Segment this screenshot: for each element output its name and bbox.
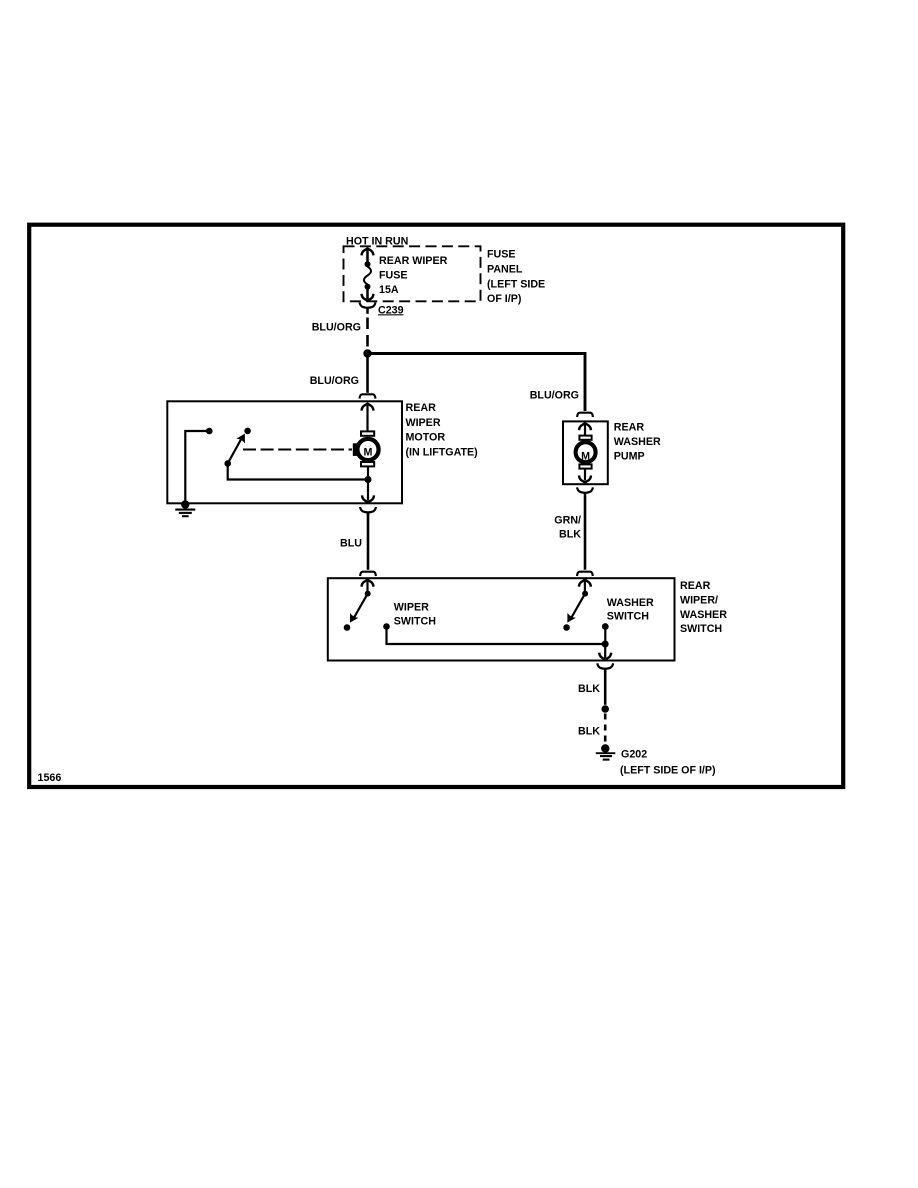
label 1566 bbox=[38, 772, 62, 784]
washer switch output contact bbox=[602, 623, 609, 642]
wire to rear washer pump branch bbox=[368, 354, 586, 412]
svg-text:MOTOR: MOTOR bbox=[406, 432, 446, 444]
connector at washer switch bbox=[577, 572, 593, 576]
svg-text:BLK: BLK bbox=[578, 725, 600, 737]
label REAR WIPER MOTOR (IN LIFTGATE) bbox=[406, 402, 479, 458]
washer switch bbox=[563, 580, 591, 631]
connector C239 bbox=[360, 302, 376, 313]
connector at wiper switch bbox=[360, 572, 376, 576]
connector at rear washer pump bbox=[577, 413, 593, 417]
wire: switch output arrow bbox=[599, 644, 611, 660]
label REAR WASHER PUMP bbox=[614, 422, 661, 463]
svg-text:(LEFT SIDE OF I/P): (LEFT SIDE OF I/P) bbox=[620, 765, 716, 777]
svg-text:(IN LIFTGATE): (IN LIFTGATE) bbox=[406, 446, 479, 458]
svg-text:SWITCH: SWITCH bbox=[394, 616, 436, 628]
park switch (in motor) bbox=[224, 428, 251, 467]
ground (motor case) bbox=[175, 500, 195, 516]
label G202 (LEFT SIDE OF I/P) bbox=[620, 749, 716, 777]
ground G202 bbox=[596, 744, 616, 759]
washer pump motor M bbox=[576, 436, 596, 469]
svg-text:WIPER/: WIPER/ bbox=[680, 594, 718, 606]
svg-text:BLU/ORG: BLU/ORG bbox=[310, 375, 359, 387]
svg-text:15A: 15A bbox=[379, 284, 399, 296]
svg-text:1566: 1566 bbox=[38, 772, 62, 784]
fuse REAR WIPER FUSE 15A bbox=[362, 248, 374, 300]
fuse panel box (dashed) bbox=[344, 246, 481, 301]
svg-text:PANEL: PANEL bbox=[487, 264, 523, 276]
wire BLK bbox=[604, 671, 607, 705]
label BLU/ORG bbox=[312, 321, 361, 333]
svg-text:C239: C239 bbox=[378, 304, 404, 316]
svg-text:OF I/P): OF I/P) bbox=[487, 293, 522, 305]
label GRN/ BLK bbox=[554, 514, 581, 540]
svg-text:SWITCH: SWITCH bbox=[680, 623, 722, 635]
label BLK bbox=[578, 683, 600, 695]
wire BLU bbox=[367, 513, 370, 570]
rear wiper motor box bbox=[167, 401, 402, 503]
wire BLU/ORG (dashed) bbox=[366, 318, 369, 350]
svg-text:FUSE: FUSE bbox=[379, 270, 408, 282]
wire BLU/ORG to motor bbox=[366, 356, 369, 393]
wiper switch bbox=[344, 580, 374, 631]
svg-text:BLK: BLK bbox=[559, 528, 581, 540]
svg-text:REAR: REAR bbox=[614, 422, 645, 434]
label HOT IN RUN bbox=[346, 235, 408, 247]
connector at rear wiper motor bbox=[360, 394, 376, 398]
svg-text:WIPER: WIPER bbox=[406, 417, 441, 429]
label BLU/ORG (washer branch) bbox=[530, 389, 579, 401]
wire GRN/BLK bbox=[584, 497, 587, 570]
connector below switch box bbox=[597, 663, 613, 672]
label WIPER SWITCH bbox=[394, 601, 436, 627]
svg-text:BLU/ORG: BLU/ORG bbox=[530, 389, 579, 401]
connector below pump bbox=[577, 487, 593, 497]
label REAR WIPER/ WASHER SWITCH bbox=[680, 580, 727, 635]
node splice S1 bbox=[363, 349, 371, 357]
wire: park contact return bbox=[228, 465, 368, 480]
svg-text:REAR WIPER: REAR WIPER bbox=[379, 255, 448, 267]
svg-text:BLU: BLU bbox=[340, 537, 362, 549]
svg-text:G202: G202 bbox=[621, 749, 647, 761]
svg-text:REAR: REAR bbox=[680, 580, 711, 592]
wire: pump feed arrow bbox=[579, 423, 591, 436]
dashed link to brush bbox=[243, 449, 352, 451]
label C239 bbox=[378, 304, 404, 316]
svg-text:FUSE: FUSE bbox=[487, 249, 516, 261]
wire: motor return with junction bbox=[362, 467, 374, 503]
label BLK bbox=[578, 725, 600, 737]
wire: motor ground stub bbox=[185, 428, 212, 503]
svg-text:BLK: BLK bbox=[578, 683, 600, 695]
svg-text:WASHER: WASHER bbox=[680, 609, 727, 621]
label FUSE PANEL (LEFT SIDE OF I/P) bbox=[487, 249, 545, 306]
node: switch output junction bbox=[602, 641, 609, 648]
label BLU bbox=[340, 537, 362, 549]
label BLU/ORG bbox=[310, 375, 359, 387]
wire: pump return arrow bbox=[579, 469, 591, 483]
connector below motor bbox=[360, 507, 376, 516]
svg-text:WASHER: WASHER bbox=[607, 597, 654, 609]
svg-text:GRN/: GRN/ bbox=[554, 514, 581, 526]
svg-text:WASHER: WASHER bbox=[614, 436, 661, 448]
svg-text:M: M bbox=[581, 451, 590, 463]
svg-text:WIPER: WIPER bbox=[394, 601, 429, 613]
wire BLK (dashed) bbox=[604, 714, 607, 744]
svg-text:M: M bbox=[364, 447, 373, 459]
motor M (rear wiper) bbox=[353, 431, 379, 466]
label WASHER SWITCH bbox=[607, 597, 654, 623]
svg-text:PUMP: PUMP bbox=[614, 451, 645, 463]
svg-text:(LEFT SIDE: (LEFT SIDE bbox=[487, 278, 545, 290]
wiper switch output contact and wire bbox=[383, 623, 605, 644]
label REAR WIPER FUSE 15A bbox=[379, 255, 448, 296]
svg-text:BLU/ORG: BLU/ORG bbox=[312, 321, 361, 333]
rear wiper/washer switch box bbox=[328, 578, 675, 660]
rear washer pump box bbox=[563, 421, 608, 484]
node: splice bbox=[601, 705, 609, 713]
svg-text:SWITCH: SWITCH bbox=[607, 611, 649, 623]
svg-text:REAR: REAR bbox=[406, 402, 437, 414]
wire: motor feed arrow bbox=[362, 404, 374, 432]
